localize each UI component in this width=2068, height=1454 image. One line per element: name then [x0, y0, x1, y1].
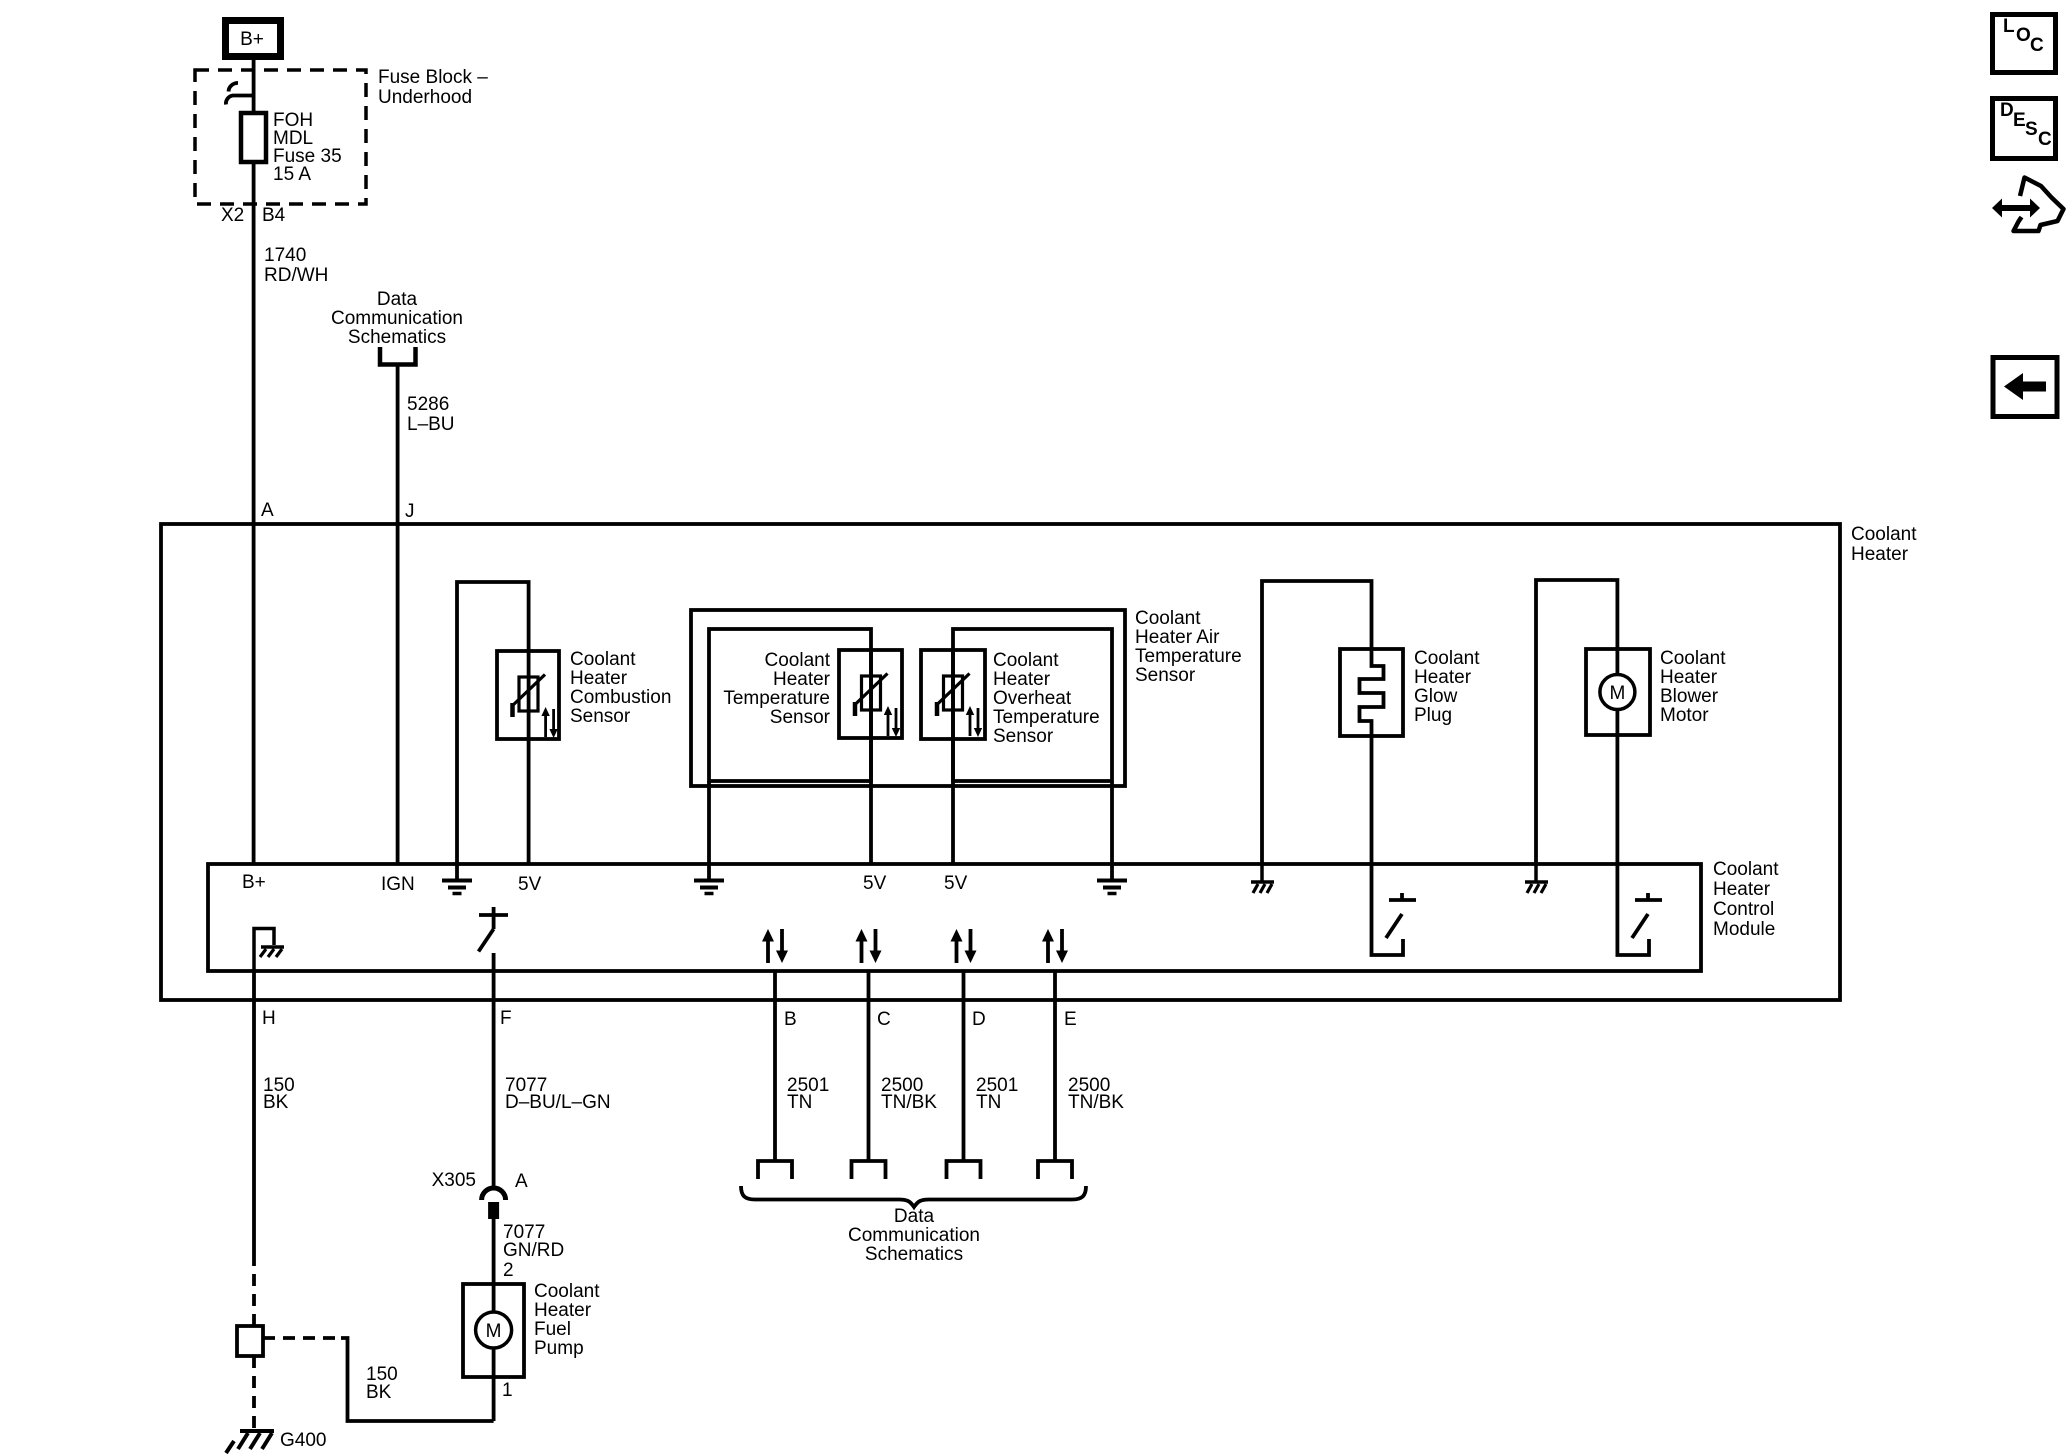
svg-text:TN: TN — [976, 1092, 1001, 1113]
wire E circuit 2500 TN/BK — [1053, 971, 1057, 1160]
label 7077 D-BU/L-GN — [505, 1075, 611, 1113]
svg-text:5V: 5V — [944, 873, 968, 894]
label 150 BK (pump return) — [366, 1364, 398, 1403]
svg-text:X305: X305 — [432, 1170, 476, 1191]
label 2501 TN — [976, 1075, 1018, 1113]
dashed branch wire to fuel pump return — [263, 1336, 341, 1340]
svg-text:Temperature: Temperature — [723, 688, 830, 709]
motor symbol M blower — [1600, 649, 1635, 735]
earth ground at module pin x457 — [442, 864, 472, 894]
svg-text:B4: B4 — [262, 205, 286, 226]
svg-text:Plug: Plug — [1414, 705, 1452, 726]
label Data Communication Schematics (top) — [331, 289, 463, 348]
fuse FOH MDL Fuse 35 15 A — [241, 110, 342, 185]
svg-text:A: A — [515, 1171, 528, 1192]
brace data communication — [741, 1186, 1086, 1207]
svg-text:D: D — [2000, 100, 2014, 121]
icon flow arrows hand — [1992, 178, 2064, 232]
wire through overheat sensor box — [951, 650, 955, 781]
svg-text:Sensor: Sensor — [570, 706, 631, 727]
coolant heater air temperature sensor box — [691, 610, 1125, 786]
svg-text:Heater: Heater — [570, 668, 628, 689]
label Coolant Heater Combustion Sensor — [570, 649, 671, 727]
connector stub wire B — [758, 1161, 792, 1179]
svg-text:Communication: Communication — [848, 1225, 980, 1246]
label Coolant Heater Glow Plug — [1414, 648, 1480, 726]
svg-text:Coolant: Coolant — [1713, 859, 1779, 880]
svg-text:GN/RD: GN/RD — [503, 1240, 564, 1261]
wire B+ to fuse block — [252, 60, 256, 70]
svg-text:5286: 5286 — [407, 394, 449, 415]
wire hook to fuse — [252, 70, 256, 113]
wire overheat sensor box to ground pin — [1110, 781, 1114, 864]
off-page bracket — [380, 347, 416, 365]
svg-text:RD/WH: RD/WH — [264, 265, 328, 286]
wire A circuit 1740 RD/WH down to coolant heater — [252, 204, 256, 864]
svg-text:5V: 5V — [518, 874, 542, 895]
svg-text:Heater Air: Heater Air — [1135, 627, 1220, 648]
label Data Communication Schematics (bottom) — [848, 1206, 980, 1265]
svg-text:G400: G400 — [280, 1430, 326, 1451]
label Coolant Heater Air Temperature Sensor — [1135, 608, 1242, 686]
label 5286 L-BU — [407, 394, 455, 435]
svg-text:Heater: Heater — [1660, 667, 1718, 688]
svg-text:Pump: Pump — [534, 1338, 584, 1359]
svg-text:F: F — [500, 1008, 512, 1029]
label 2500 TN/BK — [1068, 1075, 1124, 1113]
bidirectional data arrows pin B — [762, 929, 788, 963]
svg-text:Fuel: Fuel — [534, 1319, 571, 1340]
svg-text:1: 1 — [502, 1380, 513, 1401]
svg-text:Coolant: Coolant — [1414, 648, 1480, 669]
svg-text:Blower: Blower — [1660, 686, 1719, 707]
svg-text:B+: B+ — [242, 872, 266, 893]
coolant heater fuel pump box — [463, 1284, 524, 1377]
chassis ground at module pin x1536 — [1525, 864, 1548, 893]
svg-text:Coolant: Coolant — [1660, 648, 1726, 669]
svg-text:Overheat: Overheat — [993, 688, 1072, 709]
svg-text:C: C — [2038, 129, 2052, 150]
wire loop blower motor to chassis ground pin — [1536, 580, 1617, 864]
wire loop combustion sensor to module — [457, 582, 529, 864]
dashed wire connector to G400 — [252, 1356, 256, 1429]
svg-text:Glow: Glow — [1414, 686, 1458, 707]
icon DESC box — [1993, 99, 2056, 159]
battery feed B+ box — [226, 21, 281, 57]
coolant heater temperature sensor element box — [839, 650, 902, 738]
icon LOC box — [1993, 15, 2056, 73]
wire F circuit 7077 D-BU/L-GN — [492, 953, 496, 1187]
chassis ground at module pin x1262 — [1251, 864, 1274, 893]
coolant heater outer box — [161, 524, 1840, 1000]
label Coolant Heater Fuel Pump — [534, 1281, 600, 1359]
wire H dashed segment — [252, 1254, 256, 1326]
svg-text:2: 2 — [503, 1260, 514, 1281]
svg-text:Fuse Block –: Fuse Block – — [378, 67, 488, 88]
wire fuel pump pin 1 down — [492, 1377, 496, 1421]
wire overheat sensor to 5V pin — [951, 781, 955, 864]
wire D circuit 2501 TN — [962, 971, 966, 1160]
svg-text:15 A: 15 A — [273, 164, 311, 185]
svg-text:B: B — [784, 1009, 797, 1030]
thermistor overheat sensor — [936, 674, 970, 717]
svg-text:Underhood: Underhood — [378, 87, 472, 108]
svg-text:Heater: Heater — [773, 669, 831, 690]
label Fuse Block - Underhood — [378, 67, 488, 108]
internal switch at pin F — [479, 907, 509, 952]
coolant heater combustion sensor box — [497, 651, 559, 739]
svg-text:D: D — [972, 1009, 986, 1030]
svg-text:Temperature: Temperature — [993, 707, 1100, 728]
svg-text:TN/BK: TN/BK — [881, 1092, 937, 1113]
svg-text:Heater: Heater — [1414, 667, 1472, 688]
signal arrows combustion sensor — [541, 707, 557, 738]
label 7077 GN/RD — [503, 1222, 564, 1261]
wire glow plug to relay pin — [1370, 736, 1374, 864]
bidirectional data arrows pin C — [856, 929, 882, 963]
svg-text:L–BU: L–BU — [407, 414, 455, 435]
svg-text:Data: Data — [894, 1206, 935, 1227]
svg-text:M: M — [1609, 683, 1625, 704]
signal arrows overheat sensor — [966, 706, 982, 737]
svg-text:Coolant: Coolant — [570, 649, 636, 670]
svg-text:Coolant: Coolant — [765, 650, 831, 671]
svg-text:Module: Module — [1713, 919, 1775, 940]
label Coolant Heater Blower Motor — [1660, 648, 1726, 726]
svg-text:Sensor: Sensor — [770, 707, 831, 728]
connector X305 terminal A — [482, 1188, 506, 1219]
wire temp sensor box to ground pin — [707, 781, 711, 864]
glow plug heating element — [1360, 649, 1384, 736]
svg-text:Heater: Heater — [534, 1300, 592, 1321]
coolant heater overheat temperature sensor inner box — [953, 629, 1112, 781]
thermistor temperature sensor — [854, 674, 888, 717]
svg-text:E: E — [1064, 1009, 1077, 1030]
wire through combustion sensor box — [527, 651, 531, 739]
bidirectional data arrows pin D — [951, 929, 977, 963]
svg-text:S: S — [2025, 119, 2038, 140]
svg-text:Schematics: Schematics — [865, 1244, 963, 1265]
svg-text:5V: 5V — [863, 873, 887, 894]
motor symbol M fuel pump — [476, 1284, 512, 1377]
svg-text:L: L — [2003, 16, 2015, 37]
svg-text:D–BU/L–GN: D–BU/L–GN — [505, 1092, 611, 1113]
connector stub wire C — [852, 1161, 886, 1179]
coolant heater blower motor box — [1586, 649, 1650, 735]
wire J circuit 5286 L-BU down to coolant heater — [396, 366, 400, 864]
svg-text:Coolant: Coolant — [993, 650, 1059, 671]
svg-text:BK: BK — [263, 1092, 289, 1113]
svg-text:H: H — [262, 1008, 276, 1029]
label Coolant Heater Temperature Sensor — [723, 650, 830, 728]
label 150 BK — [263, 1075, 295, 1113]
connector stub wire E — [1038, 1161, 1072, 1179]
label 2500 TN/BK — [881, 1075, 937, 1113]
wire temp sensor to 5V pin — [869, 781, 873, 864]
svg-text:C: C — [2030, 35, 2044, 56]
relay contact for blower motor — [1617, 864, 1662, 955]
svg-text:TN: TN — [787, 1092, 812, 1113]
coolant heater temperature sensor inner box — [709, 629, 871, 781]
wire H circuit 150 BK solid — [252, 971, 256, 1254]
earth ground at module pin x709 — [694, 864, 724, 894]
thermistor combustion sensor — [512, 675, 546, 718]
bidirectional data arrows pin E — [1042, 929, 1068, 963]
wire 7077 GN/RD to fuel pump — [492, 1219, 496, 1284]
wire through temperature sensor box — [869, 650, 873, 781]
coolant heater control module box — [208, 864, 1701, 971]
svg-text:J: J — [405, 501, 415, 522]
svg-text:A: A — [261, 500, 274, 521]
svg-text:Sensor: Sensor — [993, 726, 1054, 747]
svg-text:TN/BK: TN/BK — [1068, 1092, 1124, 1113]
label Coolant Heater Control Module — [1713, 859, 1779, 940]
svg-text:B+: B+ — [240, 29, 264, 50]
svg-text:Sensor: Sensor — [1135, 665, 1196, 686]
label 2501 TN — [787, 1075, 829, 1113]
ground G400 — [226, 1431, 274, 1453]
wire combustion sensor to 5V pin — [527, 739, 531, 864]
svg-text:Coolant: Coolant — [1135, 608, 1201, 629]
wire loop glow plug to chassis ground pin — [1262, 581, 1372, 864]
fuse block - underhood dashed box — [195, 70, 366, 204]
inline connector box — [237, 1326, 263, 1356]
wire C circuit 2500 TN/BK — [867, 971, 871, 1160]
internal ground symbol at pin H — [254, 929, 284, 972]
svg-text:Temperature: Temperature — [1135, 646, 1242, 667]
svg-text:Heater: Heater — [1713, 879, 1771, 900]
svg-text:Motor: Motor — [1660, 705, 1709, 726]
label Coolant Heater Overheat Temperature Sensor — [993, 650, 1100, 747]
svg-text:Coolant: Coolant — [1851, 524, 1917, 545]
bus bar hook terminal — [226, 83, 254, 105]
svg-text:Schematics: Schematics — [348, 327, 446, 348]
wire fuse to connector X2/B4 — [252, 162, 256, 204]
svg-text:M: M — [486, 1321, 502, 1342]
svg-text:E: E — [2013, 110, 2026, 131]
svg-text:BK: BK — [366, 1382, 392, 1403]
svg-text:1740: 1740 — [264, 245, 306, 266]
svg-text:Heater: Heater — [1851, 544, 1909, 565]
svg-text:Data: Data — [377, 289, 418, 310]
signal arrows temperature sensor — [884, 706, 900, 737]
coolant heater overheat sensor element box — [921, 650, 985, 739]
svg-text:O: O — [2016, 25, 2031, 46]
solid return wire 150 BK to fuel pump — [341, 1338, 494, 1421]
svg-text:Coolant: Coolant — [534, 1281, 600, 1302]
svg-text:Heater: Heater — [993, 669, 1051, 690]
earth ground at module pin x1112 — [1097, 864, 1127, 894]
svg-text:X2: X2 — [221, 205, 244, 226]
connector labels X2 B4 — [221, 205, 286, 226]
wire blower motor to relay pin — [1616, 735, 1620, 864]
svg-text:Communication: Communication — [331, 308, 463, 329]
svg-text:IGN: IGN — [381, 874, 415, 895]
coolant heater glow plug box — [1340, 649, 1403, 736]
svg-text:Combustion: Combustion — [570, 687, 671, 708]
icon back arrow box — [1993, 358, 2057, 417]
connector stub wire D — [947, 1161, 981, 1179]
svg-text:Control: Control — [1713, 899, 1774, 920]
relay contact for glow plug — [1372, 864, 1417, 955]
label 1740 RD/WH — [264, 245, 328, 286]
svg-text:C: C — [877, 1009, 891, 1030]
label Coolant Heater — [1851, 524, 1917, 565]
wire B circuit 2501 TN — [773, 971, 777, 1160]
